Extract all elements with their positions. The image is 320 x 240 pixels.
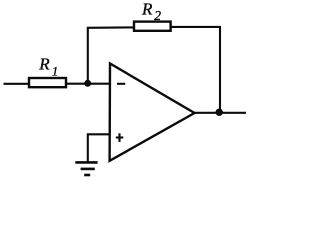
wire top left segment xyxy=(87,26,134,28)
wire top right segment xyxy=(171,26,221,28)
wire input left xyxy=(4,83,30,85)
ground xyxy=(75,161,97,164)
svg-text:R: R xyxy=(141,0,153,19)
svg-text:1: 1 xyxy=(52,63,59,78)
svg-text:2: 2 xyxy=(154,8,161,23)
node B output junction dot xyxy=(216,109,223,116)
wire feedback vertical left xyxy=(87,28,89,84)
wire R1 to inverting input xyxy=(66,83,111,85)
label R1 xyxy=(38,54,58,78)
node A junction dot xyxy=(84,80,91,87)
wire non-inverting input to ground xyxy=(88,134,111,162)
resistor R2 xyxy=(134,22,171,31)
wire feedback vertical right xyxy=(219,27,221,113)
resistor R1 xyxy=(29,78,66,87)
pin label minus (inverting input) xyxy=(117,83,125,85)
wire output xyxy=(194,112,246,114)
pin label plus (non-inverting input) xyxy=(116,136,123,138)
svg-text:R: R xyxy=(38,54,50,73)
op-amp U1 triangle xyxy=(110,64,195,161)
label R2 xyxy=(141,0,161,23)
